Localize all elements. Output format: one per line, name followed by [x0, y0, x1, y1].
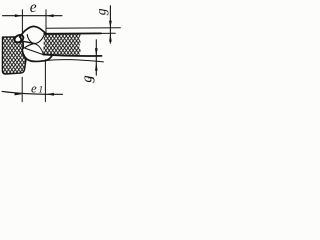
right plate bottom edge [43, 55, 101, 57]
dimension g: vertical dimension line [109, 6, 111, 43]
right plate (hatched band with ragged hatch end) [43, 34, 81, 55]
dimension e1: dimension line [2, 91, 62, 94]
dimension e: left extension line [21, 10, 23, 34]
dimension g: plate-top extension line [101, 32, 115, 34]
weld interior: lower-right bevel [25, 48, 44, 55]
svg-text:1: 1 [38, 86, 43, 96]
weld cusp node [22, 47, 24, 49]
dimension g: down arrowhead [109, 21, 112, 28]
dimension g1: vertical dimension line [95, 40, 97, 75]
top weld bead outline [20, 26, 46, 37]
svg-text:g: g [93, 8, 108, 15]
weld interior: upper-left bevel [27, 35, 34, 44]
svg-text:e: e [30, 0, 37, 16]
right plate top edge [44, 32, 101, 34]
weld interior: lower-right bevel upper branch [35, 44, 44, 54]
dimension e: left arrowhead [15, 14, 23, 17]
dimension e1: right arrowhead [46, 93, 54, 96]
dimension e1: left arrowhead [14, 93, 22, 96]
weld interior: lower-left bevel [25, 43, 35, 47]
dimension e: right arrowhead [46, 14, 54, 17]
dimension g1: down arrowhead [95, 48, 98, 55]
top bead lower-left boundary arc [20, 37, 23, 44]
top bead left lobe (thick curl over block corner) [13, 34, 24, 44]
dimension g: up arrowhead [109, 33, 112, 41]
svg-text:e: e [31, 80, 37, 95]
dimension g: bead-top tangent extension line [46, 27, 120, 29]
bottom weld bead outline [22, 48, 52, 62]
dimension e1: right extension line [44, 60, 46, 102]
weld interior: upper-right bevel [35, 34, 45, 44]
weld interior: fusion line to left plate [21, 41, 35, 44]
dimension g1: bead-bottom tangent extension line [46, 60, 104, 62]
svg-text:1: 1 [87, 76, 96, 80]
dimension e: dimension line [3, 15, 62, 17]
left plate (hatched block) [2, 37, 26, 74]
dimension e1: left extension line [21, 77, 23, 102]
dimension e: right extension line [45, 10, 47, 34]
dimension g1: up arrowhead [95, 62, 98, 70]
